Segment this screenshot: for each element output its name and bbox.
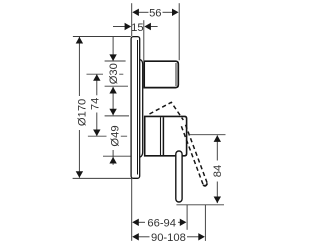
plate inner edge line	[137, 40, 139, 175]
knob front inner line	[175, 63, 177, 86]
hub centerline ticks	[88, 135, 127, 137]
arrow Ø30 top	[109, 54, 116, 61]
dimension chain line (Ø30 / Ø49)	[112, 37, 114, 165]
svg-text:Ø170: Ø170	[76, 99, 88, 126]
svg-text:84: 84	[212, 165, 224, 177]
svg-text:66-94: 66-94	[147, 217, 176, 229]
knob centerline ticks	[87, 73, 124, 75]
dashed lever rotated position	[181, 126, 203, 185]
left extension lines	[73, 37, 132, 179]
dimension 84	[176, 135, 225, 205]
svg-text:90-108: 90-108	[151, 232, 186, 244]
dashed lever tip cap	[203, 183, 207, 186]
dashed handle raised position	[150, 102, 184, 120]
dimension 15	[113, 20, 158, 60]
svg-text:Ø30: Ø30	[108, 63, 120, 84]
lever handle (down position)	[176, 151, 182, 202]
handle hub block	[145, 116, 187, 155]
bottom extension lines	[132, 178, 206, 241]
dimension 74 (between centers)	[96, 74, 98, 135]
svg-text:56: 56	[149, 7, 161, 19]
arrow Ø49 top	[109, 109, 116, 116]
arrow Ø30 bottom	[109, 87, 116, 94]
hub divider line	[160, 117, 162, 155]
arrow Ø49 bottom	[109, 157, 116, 164]
diverter knob (upper block)	[144, 61, 178, 87]
svg-text:Ø49: Ø49	[109, 125, 121, 146]
dimension 56	[132, 3, 180, 60]
dimension 66-94	[139, 221, 181, 223]
svg-text:15: 15	[131, 22, 143, 34]
dimension 90-108	[139, 236, 199, 238]
wall plate (escutcheon side view)	[131, 37, 140, 179]
svg-text:74: 74	[90, 98, 102, 110]
dimension Ø170	[78, 37, 80, 178]
plate raised boss outline	[140, 60, 143, 158]
